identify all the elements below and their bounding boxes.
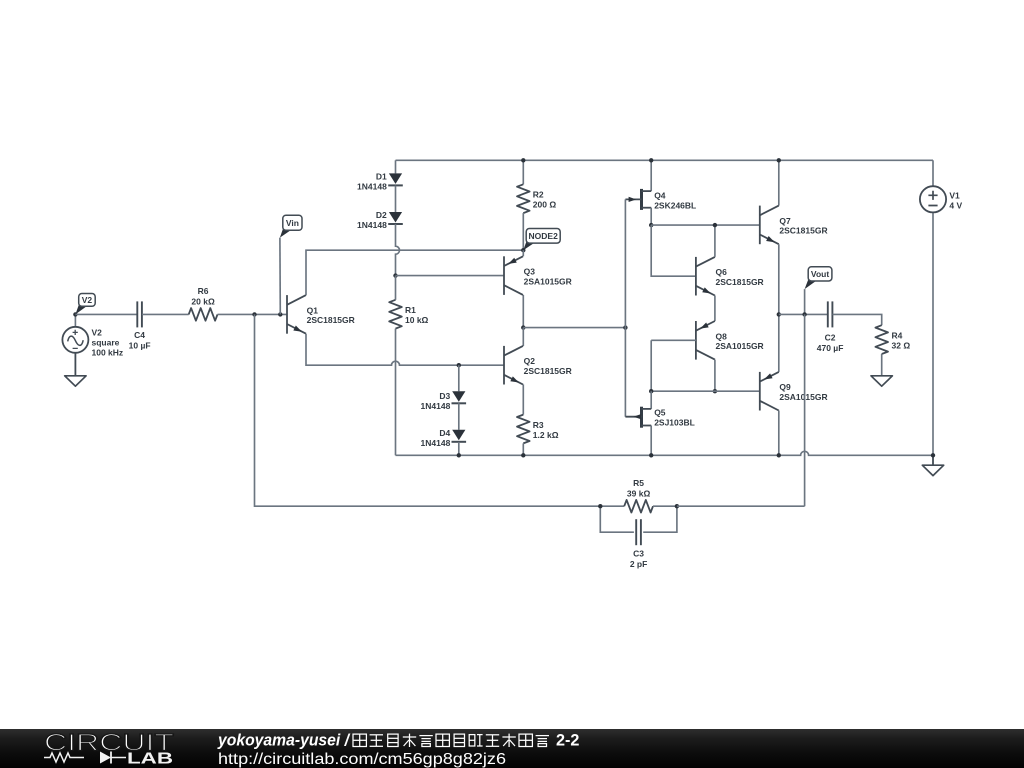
transistor Q6 2SC1815GR [696,257,764,296]
svg-text:V2: V2 [82,295,93,305]
wire gate bus vertical Q4 to Q5 [624,199,626,416]
node Vout tap [802,312,806,316]
svg-text:R1: R1 [405,305,416,315]
capacitor C3 2 pF [600,506,677,569]
node R5/C3 left [598,504,602,508]
resistor R1 10 kΩ [389,276,428,456]
CircuitLab logo wordmark [44,730,174,757]
footer title glyphs [353,732,579,750]
transistor Q1 2SC1815GR [287,295,355,334]
node driver bottom junction [649,389,653,393]
svg-text:C4: C4 [134,330,145,340]
svg-text:R5: R5 [633,478,644,488]
diode D2 1N4148 [357,210,403,230]
svg-text:Q8: Q8 [716,331,728,341]
svg-text:D2: D2 [376,210,387,220]
JFET Q4 2SK246BL [625,160,696,225]
node R5/C3 right [675,504,679,508]
svg-text:Q2: Q2 [524,356,536,366]
net flag V2 [75,294,95,315]
svg-text:2SA1015GR: 2SA1015GR [716,341,764,351]
wire bottom rail (hop over feedback wire) [396,451,934,455]
svg-text:R3: R3 [533,420,544,430]
wire driver bottom rail to Q9 base [651,390,760,392]
svg-text:Vout: Vout [811,269,829,279]
wire Q8 base feed [651,340,696,391]
ground (main, below V1 return) [922,455,943,475]
svg-text:Q6: Q6 [716,267,728,277]
svg-text:10 kΩ: 10 kΩ [405,315,429,325]
wire Q3 base [396,275,505,277]
node Q5 on bottom rail [649,453,653,457]
transistor Q9 2SA1015GR [760,314,828,410]
svg-text:200 Ω: 200 Ω [533,200,557,210]
wire Q6 base feed [651,225,696,276]
svg-text:2SJ103BL: 2SJ103BL [654,418,695,428]
footer url [218,751,506,768]
wire C4 to R6 [142,313,189,315]
svg-text:C3: C3 [633,549,644,559]
svg-text:yokoyama-yusei /: yokoyama-yusei / [217,732,350,750]
svg-text:2SC1815GR: 2SC1815GR [779,226,827,236]
diode D1 1N4148 [357,160,403,212]
ground (below R4) [871,376,892,386]
net flag NODE2 [523,229,560,251]
transistor Q8 2SA1015GR [696,321,764,360]
capacitor C2 470 µF [817,301,844,353]
footer attribution line [217,732,350,750]
wire Q1 emitter to Q2 base (hop over R1 wire) [306,334,504,366]
svg-text:1N4148: 1N4148 [421,401,451,411]
wire Q6 collector up to driver top [714,225,716,257]
wire Q9 collector down to bottom rail [778,411,780,456]
svg-text:D1: D1 [376,171,387,181]
svg-text:LAB: LAB [127,751,173,768]
svg-text:2SK246BL: 2SK246BL [654,200,696,210]
svg-text:Q5: Q5 [654,408,666,418]
svg-text:2SC1815GR: 2SC1815GR [307,315,355,325]
svg-text:100 kHz: 100 kHz [92,348,124,358]
svg-text:V1: V1 [949,190,960,200]
CircuitLab logo LAB text [127,751,173,768]
svg-text:square: square [92,338,120,348]
resistor R6 20 kΩ [189,286,218,321]
svg-text:39 kΩ: 39 kΩ [627,488,651,498]
svg-text:Q4: Q4 [654,190,666,200]
svg-text:Vin: Vin [286,218,299,228]
node Q6 collector junction [713,223,717,227]
svg-text:Q7: Q7 [779,216,791,226]
svg-text:20 kΩ: 20 kΩ [191,296,215,306]
svg-text:R4: R4 [892,330,903,340]
svg-text:2 pF: 2 pF [630,559,647,569]
svg-text:1N4148: 1N4148 [357,181,387,191]
svg-text:R2: R2 [533,190,544,200]
wire Q3 collector down to collector bus [522,295,524,328]
svg-text:10 µF: 10 µF [129,340,151,350]
node R3 on bottom rail [521,453,525,457]
node Q7 collector on rail [777,158,781,162]
svg-text:1N4148: 1N4148 [357,220,387,230]
svg-text:2SC1815GR: 2SC1815GR [524,366,572,376]
svg-text:D3: D3 [439,391,450,401]
svg-text:4 V: 4 V [949,200,962,210]
wire D2 cathode down, hop over NODE2 wire [396,224,400,276]
ground (below V2) [65,353,86,386]
svg-text:2SA1015GR: 2SA1015GR [524,276,572,286]
wire C2 to R4 [832,314,881,325]
voltage source V2 square 100 kHz [62,314,123,357]
transistor Q2 2SC1815GR [504,328,572,385]
svg-text:470 µF: 470 µF [817,343,844,353]
svg-text:2-2: 2-2 [556,732,579,750]
wire Vout feedback vertical [804,314,806,506]
svg-text:2SA1015GR: 2SA1015GR [779,392,827,402]
node V1 return on bottom rail [931,453,935,457]
net flag Vin [280,215,302,314]
wire feedback to Vout vertical [677,505,805,507]
resistor R2 200 Ω [517,160,556,250]
svg-text:32 Ω: 32 Ω [892,340,911,350]
svg-text:Q1: Q1 [307,305,319,315]
node V2 output [73,312,77,316]
resistor R5 39 kΩ [600,478,677,513]
CircuitLab logo resistor-diode glyph [44,752,126,764]
wire Q1 collector to NODE2 [306,250,523,295]
wire R6 to Q1 base [218,313,288,315]
node feedback tap [252,312,256,316]
JFET Q5 2SJ103BL [625,391,694,455]
node Q4 source / driver top junction [649,223,653,227]
wire Q6 emitter to Q8 emitter [714,296,716,322]
svg-text:2SC1815GR: 2SC1815GR [716,277,764,287]
node output junction [777,312,781,316]
diode D3 1N4148 [421,365,467,430]
node Q3/Q2 collector junction [521,325,525,329]
node Q4 drain on rail [649,158,653,162]
node D3 anode on Q2 base wire [457,363,461,367]
svg-text:D4: D4 [439,428,450,438]
node D4 cathode on bottom rail [457,453,461,457]
node gate bus junction [623,325,627,329]
node Vin tap [278,312,282,316]
wire collector bus to FET gate bus [523,327,625,329]
node R2 top on rail [521,158,525,162]
svg-text:http://circuitlab.com/cm56gp8g: http://circuitlab.com/cm56gp8g82jz6 [218,751,506,768]
wire driver top rail to Q7 base [651,224,760,226]
wire V2 to C4 [75,313,137,315]
resistor R4 32 Ω [875,325,910,376]
node Q9 collector on bottom rail [777,453,781,457]
transistor Q3 2SA1015GR [504,250,572,295]
node Q8 collector junction [713,389,717,393]
wire top supply rail [396,159,934,161]
wire feedback from Q1 base node [255,314,601,506]
svg-text:NODE2: NODE2 [529,231,559,241]
voltage source V1 4 V [920,160,963,455]
svg-text:V2: V2 [92,328,103,338]
node junction R1 top / Q3 base wire [393,273,397,277]
capacitor C4 10 µF [129,301,151,350]
svg-text:Q9: Q9 [779,382,791,392]
diode D4 1N4148 [421,428,467,455]
svg-text:1.2 kΩ: 1.2 kΩ [533,430,559,440]
svg-text:Q3: Q3 [524,267,536,277]
wire Q7 emitter down to output node [778,244,780,314]
wire output node to C2 [779,313,828,315]
svg-text:R6: R6 [198,286,209,296]
node NODE2 junction [521,248,525,252]
net flag Vout [805,267,832,315]
wire Q8 collector down to driver bottom [714,360,716,392]
resistor R3 1.2 kΩ [517,384,559,455]
svg-text:1N4148: 1N4148 [421,438,451,448]
svg-text:C2: C2 [825,332,836,342]
transistor Q7 2SC1815GR [760,160,828,244]
